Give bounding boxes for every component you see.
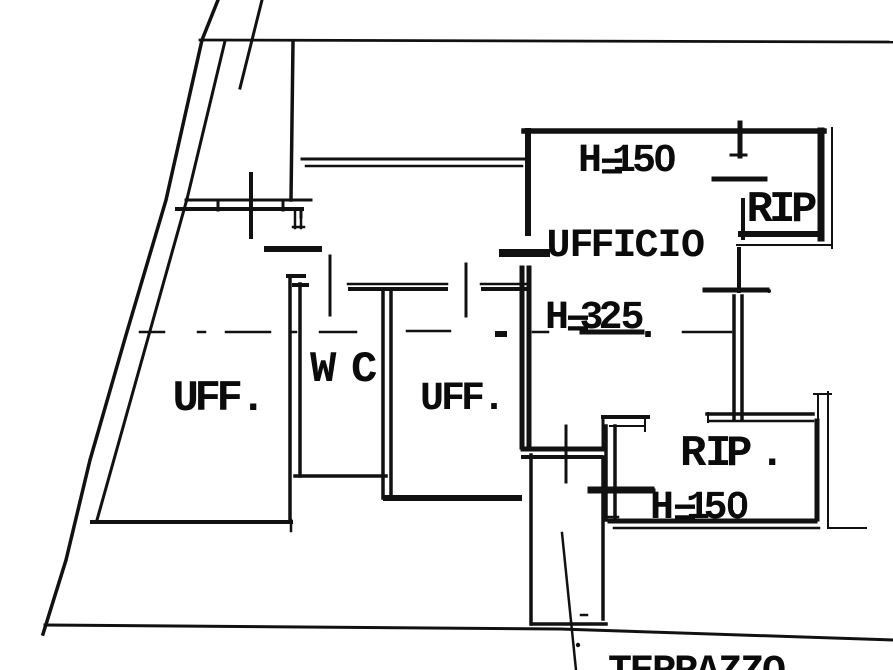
- svg-text:UFF.: UFF.: [420, 377, 506, 422]
- svg-text:H=150: H=150: [650, 486, 750, 538]
- svg-text:UFFICIO: UFFICIO: [547, 224, 706, 269]
- svg-text:C: C: [351, 345, 377, 395]
- svg-text:RIP: RIP: [747, 185, 818, 235]
- svg-text:TERRAZZO: TERRAZZO: [608, 650, 785, 670]
- svg-text:UFF.: UFF.: [173, 374, 267, 424]
- svg-text:RIP.: RIP.: [680, 429, 785, 479]
- svg-text:W: W: [310, 345, 337, 395]
